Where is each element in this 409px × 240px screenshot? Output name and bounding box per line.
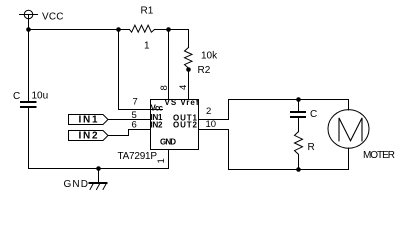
svg-text:R2: R2 (198, 65, 211, 76)
svg-text:1: 1 (144, 41, 150, 52)
svg-text:C: C (310, 109, 317, 120)
svg-text:VCC: VCC (42, 12, 64, 23)
svg-text:VS Vref: VS Vref (165, 98, 199, 107)
svg-text:8: 8 (159, 85, 170, 90)
svg-text:GND: GND (160, 138, 176, 147)
svg-text:10u: 10u (32, 91, 49, 102)
svg-text:7: 7 (133, 96, 138, 107)
svg-text:2: 2 (206, 106, 211, 117)
svg-text:IN2: IN2 (151, 121, 164, 130)
svg-text:R1: R1 (141, 6, 154, 17)
svg-text:4: 4 (178, 85, 189, 90)
svg-text:TA7291P: TA7291P (118, 151, 158, 162)
svg-text:Vcc: Vcc (151, 104, 164, 113)
svg-text:MOTER: MOTER (363, 150, 395, 161)
svg-text:GND: GND (64, 179, 89, 190)
svg-text:OUT2: OUT2 (173, 121, 198, 130)
svg-text:6: 6 (132, 120, 137, 131)
svg-text:1: 1 (156, 158, 167, 163)
svg-text:10: 10 (206, 119, 217, 130)
svg-text:C: C (13, 91, 20, 102)
svg-text:R: R (308, 142, 315, 153)
svg-text:10k: 10k (201, 51, 218, 62)
